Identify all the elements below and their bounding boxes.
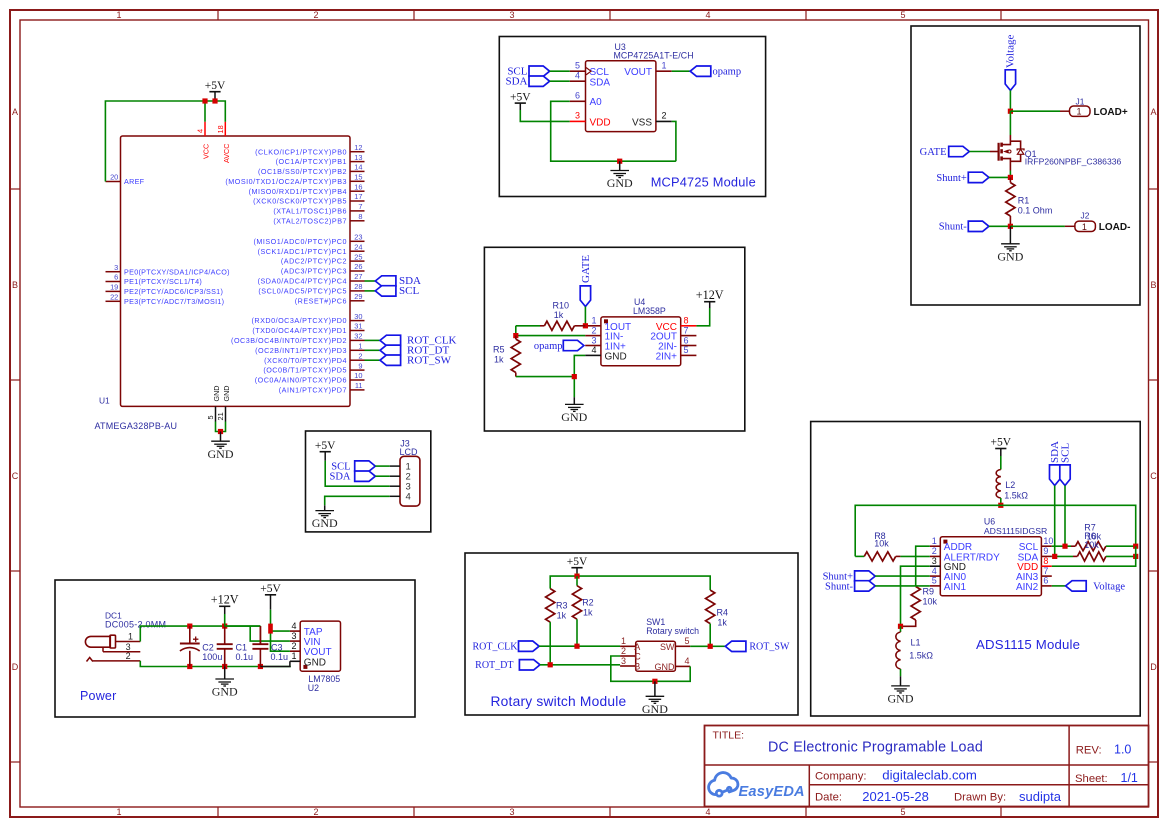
svg-text:3: 3 [114,263,118,272]
svg-text:5: 5 [900,807,905,817]
svg-text:1.0: 1.0 [1114,742,1131,756]
svg-text:PE0(PTCXY/SDA1/ICP4/ACO): PE0(PTCXY/SDA1/ICP4/ACO) [124,267,230,276]
svg-text:SCL: SCL [590,67,610,78]
svg-text:MCP4725A1T-E/CH: MCP4725A1T-E/CH [614,51,694,61]
U3 pin 4 SDA [570,71,611,89]
svg-text:+12V: +12V [211,593,239,607]
U1 pin 12 PB0 [255,143,364,156]
svg-text:0.1 Ohm: 0.1 Ohm [1018,206,1053,216]
junction [708,644,713,649]
SW1 pin 4 GND [655,656,691,672]
U3 pin 3 VDD [570,111,611,129]
transistor Q1 IRFP260NPBF [990,135,1122,171]
svg-text:12: 12 [354,143,362,152]
U2 pin 3 VIN [290,631,321,648]
power +5V (above U1) [205,80,226,101]
svg-text:D: D [1150,662,1157,672]
svg-text:1/1: 1/1 [1121,771,1138,785]
svg-text:GND: GND [212,386,221,402]
junction [617,159,622,164]
wire +5V top rail [550,573,710,590]
junction [574,644,579,649]
resistor R7 10k (SCL pull-up) [1071,523,1136,551]
svg-text:GND: GND [642,702,668,716]
U1 pin 18 AVCC (top) [216,122,231,163]
connector J2 LOAD- [1065,210,1131,233]
wire SCL pin10 to pull-up [1052,545,1071,547]
net flag SCL (U1) [365,285,420,297]
svg-text:11: 11 [355,381,363,390]
svg-text:1k: 1k [583,607,593,617]
svg-text:2IN+: 2IN+ [656,351,678,362]
wire DC1 pin2 to ground rail [140,661,290,667]
svg-text:5: 5 [900,10,905,20]
svg-text:sudipta: sudipta [1019,789,1062,804]
net flag ROT_CLK (U1) [365,335,457,347]
svg-text:U1: U1 [99,396,110,406]
svg-text:Rotary switch Module: Rotary switch Module [491,694,627,709]
svg-text:(MISO1/ADC0/PTCY)PC0: (MISO1/ADC0/PTCY)PC0 [254,237,347,246]
SW1 pin 2 C [620,646,641,662]
switch SW1 Rotary switch body [636,617,699,671]
wire A0 to ground rail [551,101,676,161]
J3 pin 2 [390,472,411,483]
svg-text:27: 27 [354,272,362,281]
svg-text:GND: GND [655,662,676,672]
svg-text:Voltage: Voltage [1093,581,1125,592]
svg-text:(MISO0/RXD1/PTCXY)PB4: (MISO0/RXD1/PTCXY)PB4 [249,187,347,196]
junction [222,624,227,629]
svg-text:ADS1115IDGSR: ADS1115IDGSR [984,526,1047,536]
module box: LCD header [306,431,431,532]
wire pin4 to ground [574,355,585,397]
svg-text:3: 3 [291,631,296,641]
capacitor C3 0.1u [252,626,288,666]
svg-text:ROT_CLK: ROT_CLK [473,642,519,653]
svg-text:9: 9 [358,361,362,370]
svg-text:20: 20 [110,173,118,182]
svg-text:2: 2 [662,111,667,121]
svg-text:(RXD0/OC3A/PTCXY)PD0: (RXD0/OC3A/PTCXY)PD0 [252,316,347,325]
svg-text:ROT_SW: ROT_SW [407,355,452,367]
svg-text:4: 4 [705,807,710,817]
svg-text:10k: 10k [1084,540,1099,550]
svg-text:5: 5 [206,415,215,419]
resistor R6 10k (SDA pull-up) [1073,552,1136,561]
svg-text:29: 29 [354,292,362,301]
resistor R1 0.1 Ohm [1006,177,1053,226]
net label SDA (vertical, ADS) [1049,441,1061,486]
svg-text:U2: U2 [308,683,319,693]
junction [202,98,207,103]
ADC U6 ADS1115IDGSR body [940,517,1047,596]
svg-text:(OC1A/PTCXY)PB1: (OC1A/PTCXY)PB1 [276,157,347,166]
U6 pin 9 SDA [1018,546,1052,563]
wire SW1 pin5 to ROT_SW node [690,645,725,647]
svg-text:GND: GND [304,657,326,668]
net flag Shunt+ (ADS) [823,571,930,583]
U1 pin 13 PB1 [276,153,365,166]
U3 pin 6 A0 [570,91,602,109]
ground (Power module) [212,667,238,699]
SW1 pin 1 A [620,636,640,652]
svg-text:10k: 10k [874,539,889,549]
svg-text:1: 1 [591,316,596,326]
U1 pin 24 PC1 [258,242,365,255]
net flag GATE (Q1) [920,146,990,158]
svg-text:4: 4 [196,129,205,133]
svg-text:C: C [12,471,19,481]
junction [1008,224,1013,229]
U1 pin 7 PB6 [273,202,364,215]
svg-text:A: A [12,107,18,117]
svg-text:24: 24 [354,242,362,251]
svg-text:PE1(PTCXY/SCL1/T4): PE1(PTCXY/SCL1/T4) [124,277,202,286]
svg-text:(SCL0/ADC5/PTCY)PC5: (SCL0/ADC5/PTCY)PC5 [258,287,347,296]
U1 pin 8 PB7 [273,212,364,225]
resistor R3 1k [546,589,568,665]
svg-text:A0: A0 [590,97,603,108]
svg-text:1: 1 [1082,222,1087,232]
svg-text:1k: 1k [717,618,727,628]
svg-text:Sheet:: Sheet: [1075,773,1108,785]
junction [1008,109,1013,114]
svg-text:22: 22 [110,293,118,302]
junction [1133,544,1138,549]
power +5V (rotary) [567,556,588,573]
U4 pin 8 VCC [656,316,697,333]
svg-text:1: 1 [116,10,121,20]
svg-text:R3: R3 [556,601,568,611]
U6 pin 1 ADDR [930,536,972,553]
title block [705,726,1149,807]
net flag Voltage (ADS AIN2) [1052,581,1126,593]
svg-text:GND: GND [605,351,627,362]
svg-text:1: 1 [291,651,296,661]
U6 pin 3 GND [930,556,966,573]
wire GND pin3 down [901,566,930,626]
svg-text:Voltage: Voltage [1005,34,1017,68]
wire VIN to +12V rail [250,626,290,641]
svg-text:1.5kΩ: 1.5kΩ [1004,490,1028,500]
wire R5 bottom rail to ground [516,376,575,378]
svg-text:opamp: opamp [713,67,742,78]
net label GATE (vertical, LM358) [580,255,592,307]
svg-text:R1: R1 [1018,195,1030,205]
connector J3 LCD body [400,438,420,506]
svg-text:VCC: VCC [202,144,211,159]
svg-text:AIN2: AIN2 [1016,582,1039,593]
U6 pin 8 VDD [1017,556,1052,573]
ground (ADS1115) [888,676,914,705]
U6 pin 5 AIN1 [930,576,967,593]
svg-text:5: 5 [932,576,937,586]
net flag ROT_DT (U1) [365,345,450,357]
power +5V (MCP4725) [510,91,531,110]
svg-text:(SCK1/ADC1/PTCY)PC1: (SCK1/ADC1/PTCY)PC1 [258,247,347,256]
svg-text:ATMEGA328PB-AU: ATMEGA328PB-AU [95,421,178,431]
svg-text:26: 26 [354,262,362,271]
svg-text:18: 18 [216,125,225,133]
svg-text:1: 1 [1077,107,1082,117]
svg-text:GND: GND [888,692,914,706]
junction [1133,554,1138,559]
wire SCL column [1064,486,1066,547]
svg-text:2: 2 [313,807,318,817]
junction [187,664,192,669]
U1 pin 31 PD1 [252,322,364,335]
U4 pin 3 1IN+ [585,335,626,352]
svg-text:C2: C2 [202,643,214,653]
junction [1008,175,1013,180]
svg-text:2: 2 [932,546,937,556]
junction [898,624,903,629]
svg-text:3: 3 [509,10,514,20]
U1 pin 10 PD6 [255,371,365,384]
svg-text:GATE: GATE [920,147,947,158]
U4 pin 6 2IN- [658,335,696,352]
svg-text:SCL: SCL [399,285,419,297]
svg-text:1: 1 [116,807,121,817]
svg-text:SDA: SDA [505,76,527,88]
wire source to shunt [1009,171,1011,178]
svg-text:23: 23 [354,233,362,242]
inductor L2 1.5kOhm [996,456,1028,505]
svg-text:L1: L1 [911,638,921,648]
svg-text:4: 4 [932,566,937,576]
svg-text:R4: R4 [717,608,729,618]
svg-text:(XCK0/SCK0/PTCXY)PB5: (XCK0/SCK0/PTCXY)PB5 [253,197,347,206]
U6 pin 7 AIN3 [1016,566,1052,583]
svg-text:1: 1 [128,631,133,641]
svg-text:3: 3 [509,807,514,817]
svg-text:D: D [12,662,19,672]
junction [268,624,273,634]
svg-text:5: 5 [685,636,690,646]
U1 pin 28 PC5 [258,282,364,295]
svg-text:VDD: VDD [590,118,611,129]
svg-text:(XTAL1/TOSC1)PB6: (XTAL1/TOSC1)PB6 [273,207,347,216]
junction [572,374,577,379]
resistor R2 1k [572,576,593,646]
wire U1 GND pins to ground [216,422,226,432]
svg-text:IRFP260NPBF_C386336: IRFP260NPBF_C386336 [1025,156,1122,166]
svg-text:100u: 100u [202,652,222,662]
svg-text:+5V: +5V [991,437,1012,449]
DAC U3 MCP4725A1T-E/CH body [586,42,694,132]
net flag SDA (U1) [365,275,422,287]
svg-text:ADS1115 Module: ADS1115 Module [976,637,1080,652]
svg-text:GND: GND [561,410,587,424]
svg-text:LCD: LCD [400,447,419,457]
svg-text:MCP4725 Module: MCP4725 Module [651,175,756,190]
ground (Q1 module) [997,226,1023,263]
svg-text:VSS: VSS [632,118,652,129]
svg-text:16: 16 [354,182,362,191]
svg-text:6: 6 [684,335,689,345]
svg-text:REV:: REV: [1076,744,1102,756]
wire ADDR pin1 to R9 [916,546,930,586]
svg-text:17: 17 [354,192,362,201]
SW1 pin 5 SW [660,636,690,652]
svg-text:+12V: +12V [696,288,724,302]
junction [187,624,192,629]
U1 pin 23 PC0 [254,233,365,246]
svg-text:4: 4 [591,345,596,355]
power +12V (LM358) [696,288,724,308]
svg-text:(CLKO/ICP1/PTCXY)PB0: (CLKO/ICP1/PTCXY)PB0 [255,147,347,156]
svg-text:1k: 1k [494,355,504,365]
svg-text:+5V: +5V [510,91,531,103]
power +12V (Power module) [211,593,239,627]
svg-text:6: 6 [575,91,580,101]
J3 pin 4 [390,492,411,503]
power +5V (ADS1115) [991,437,1012,456]
junction [222,664,227,669]
U1 pin 29 PC6 [295,292,365,305]
svg-text:30: 30 [354,312,362,321]
svg-text:(MOSI0/TXD1/OC2A/PTCXY)PB3: (MOSI0/TXD1/OC2A/PTCXY)PB3 [225,177,347,186]
svg-text:GND: GND [607,176,633,190]
junction [998,503,1003,508]
svg-text:(XCK0/T0/PTCXY)PD4: (XCK0/T0/PTCXY)PD4 [264,356,347,365]
wire C3 top to rail [259,626,261,644]
svg-text:3: 3 [591,335,596,345]
U1 pin 14 PB2 [258,163,365,176]
svg-text:3: 3 [575,111,580,121]
svg-text:2: 2 [621,646,626,656]
net flag SCL (LCD) [331,461,389,473]
U2 pin 4 TAP [290,621,323,638]
svg-text:Rotary switch: Rotary switch [646,626,699,636]
net flag Shunt- (Q1) [939,221,1011,233]
svg-text:ROT_SW: ROT_SW [749,642,790,653]
net flag SDA (U3) [505,76,569,88]
svg-text:LM358P: LM358P [633,306,666,316]
svg-text:Date:: Date: [815,792,842,804]
svg-text:B: B [634,662,640,672]
wire drain [1009,111,1011,135]
wire SW1 pin2 to ground loop [611,656,690,681]
U1 pin 30 PD0 [252,312,365,325]
svg-text:J1: J1 [1076,96,1085,106]
svg-text:+5V: +5V [315,440,336,452]
U6 pin 10 SCL [1019,536,1054,553]
svg-text:0.1u: 0.1u [236,652,254,662]
svg-text:GATE: GATE [580,255,592,283]
net flag SCL (U3) [507,66,569,78]
svg-text:EasyEDA: EasyEDA [739,784,805,800]
svg-text:digitaleclab.com: digitaleclab.com [882,768,977,783]
U2 pin 1 GND [290,651,326,668]
U1 pin 6 PE1 [106,273,203,286]
svg-text:1: 1 [358,342,362,351]
svg-text:3: 3 [932,556,937,566]
junction [513,333,518,338]
svg-text:31: 31 [354,322,362,331]
junction [652,679,657,684]
svg-text:GND: GND [312,516,338,530]
svg-text:(AIN1/PTCXY)PD7: (AIN1/PTCXY)PD7 [279,386,347,395]
svg-text:B: B [12,280,18,290]
U1 pin 26 PC3 [281,262,365,275]
svg-text:(TXD0/OC4A/PTCXY)PD1: (TXD0/OC4A/PTCXY)PD1 [252,326,347,335]
svg-text:2: 2 [313,10,318,20]
U1 pin 22 PE3 [106,293,225,306]
svg-text:6: 6 [114,273,118,282]
junction [583,323,588,328]
svg-text:LOAD+: LOAD+ [1094,107,1128,118]
U1 pin 27 PC4 [258,272,365,285]
ground (LCD) [312,511,338,531]
wire GATE to pin1 [584,307,586,326]
svg-text:+5V: +5V [567,556,588,568]
svg-text:AREF: AREF [124,177,145,186]
U1 pin 20 AREF [106,173,145,186]
svg-text:A: A [1150,107,1156,117]
svg-text:C: C [634,652,641,662]
svg-text:7: 7 [1043,566,1048,576]
svg-text:GND: GND [997,249,1023,263]
connector DC1 DC005-2.0MM barrel jack [85,611,166,662]
svg-text:Shunt-: Shunt- [939,222,968,233]
svg-text:5: 5 [575,61,580,71]
svg-text:28: 28 [354,282,362,291]
U4 pin 7 2OUT [650,325,696,342]
svg-text:(OC1B/SS0/PTCXY)PB2: (OC1B/SS0/PTCXY)PB2 [258,167,347,176]
svg-text:SW: SW [660,642,675,652]
junction [218,429,223,434]
svg-text:(SDA0/ADC4/PTCY)PC4: (SDA0/ADC4/PTCY)PC4 [258,277,347,286]
svg-text:Power: Power [80,689,116,703]
net flag Shunt+ (Q1) [936,172,1010,184]
svg-text:10: 10 [1043,536,1053,546]
net flag ROT_SW (U1) [365,355,452,367]
svg-text:R9: R9 [923,587,935,597]
svg-text:7: 7 [358,202,362,211]
U1 pin 25 PC2 [281,252,365,265]
svg-text:0.1u: 0.1u [271,652,289,662]
svg-text:(XTAL2/TOSC2)PB7: (XTAL2/TOSC2)PB7 [273,216,347,225]
svg-text:(OC3B/OC4B/INT0/PTCXY)PD2: (OC3B/OC4B/INT0/PTCXY)PD2 [231,336,347,345]
wire +5V to J3 pin3 [325,461,390,486]
U4 pin 4 GND [585,345,627,362]
wire +12V rail extension to C3 [225,625,261,627]
svg-text:GND: GND [208,447,234,461]
capacitor C1 0.1u [217,626,253,666]
U1 pin 32 PD2 [231,332,364,345]
net label Voltage (vertical, top) [1005,34,1017,90]
svg-text:10: 10 [354,371,362,380]
resistor R5 1k [493,336,520,377]
U3 pin 5 SCL [570,61,610,79]
wire J3 pin4 to ground [325,496,390,510]
svg-text:C1: C1 [236,643,248,653]
net flag Shunt- (ADS) [825,581,930,593]
ground (LM358) [561,397,587,424]
U4 pin 1 1OUT [585,316,631,333]
svg-text:1: 1 [621,636,626,646]
svg-text:Company:: Company: [815,771,867,783]
svg-text:2: 2 [291,641,296,651]
net label SCL (vertical, ADS) [1060,443,1072,486]
resistor R8 10k (ALERT pull-up) [855,531,930,561]
J3 pin 3 [390,482,411,493]
module box: Power [55,580,415,717]
svg-text:Shunt+: Shunt+ [936,173,967,184]
svg-text:DC Electronic Programable Load: DC Electronic Programable Load [768,740,983,756]
svg-text:25: 25 [354,252,362,261]
